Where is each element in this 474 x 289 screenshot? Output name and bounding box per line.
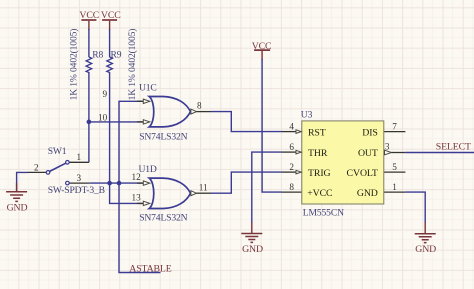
- svg-text:7: 7: [392, 121, 397, 131]
- svg-text:4: 4: [289, 121, 294, 131]
- or-gate U1C: [98, 82, 211, 142]
- resistor R8: [86, 50, 103, 73]
- svg-text:CVOLT: CVOLT: [347, 168, 378, 179]
- svg-text:8: 8: [197, 100, 202, 110]
- ground GND (right): [415, 222, 436, 255]
- svg-text:U3: U3: [301, 109, 313, 120]
- body: [302, 121, 384, 204]
- svg-text:1K 1% 0402(1005): 1K 1% 0402(1005): [127, 29, 138, 101]
- svg-text:SW-SPDT-3_B: SW-SPDT-3_B: [48, 185, 105, 196]
- wire SW1 pin3 to U1D pin12: [89, 182, 142, 184]
- lever: [50, 163, 66, 171]
- svg-text:U1C: U1C: [139, 82, 157, 93]
- switch SW1: [28, 146, 105, 196]
- svg-text:SN74LS32N: SN74LS32N: [139, 132, 187, 143]
- svg-text:SN74LS32N: SN74LS32N: [139, 212, 187, 223]
- svg-text:6: 6: [289, 142, 294, 152]
- junction at R8 column / U1C pin10 wire: [87, 120, 92, 125]
- svg-text:ASTABLE: ASTABLE: [129, 263, 171, 274]
- ground GND (center): [241, 222, 263, 255]
- svg-text:10: 10: [98, 113, 108, 123]
- wire VCC bar to R9: [109, 29, 111, 57]
- svg-text:3: 3: [77, 173, 82, 183]
- svg-text:1: 1: [392, 182, 397, 192]
- svg-text:GND: GND: [242, 244, 263, 255]
- svg-text:GND: GND: [357, 188, 378, 199]
- svg-text:5: 5: [392, 162, 397, 172]
- junction at ASTABLE column / SW pin3 wire: [117, 181, 122, 186]
- junction at R9 column / SW pin3 wire: [107, 181, 112, 186]
- resistor R9: [107, 50, 122, 73]
- svg-text:13: 13: [132, 192, 142, 202]
- wire U1C pin10 from R8 junction: [89, 121, 143, 123]
- svg-text:1K 1% 0402(1005): 1K 1% 0402(1005): [68, 29, 79, 101]
- svg-text:LM555CN: LM555CN: [303, 208, 344, 219]
- svg-text:TRIG: TRIG: [308, 168, 330, 179]
- svg-text:11: 11: [199, 182, 208, 192]
- wire VCC center to U3 +VCC: [262, 59, 281, 192]
- svg-text:R8: R8: [92, 50, 103, 61]
- wire U3 OUT to SELECT: [405, 152, 474, 154]
- svg-text:2: 2: [34, 162, 39, 172]
- wire U1C pin9 corner down to ASTABLE: [119, 101, 161, 272]
- svg-text:12: 12: [132, 172, 142, 182]
- svg-text:SELECT: SELECT: [436, 142, 471, 153]
- svg-text:DIS: DIS: [362, 127, 378, 138]
- ground GND (left): [6, 183, 27, 213]
- wire U1D pin11 to U3 TRIG: [211, 172, 282, 193]
- svg-text:GND: GND: [7, 202, 28, 213]
- gate body: [149, 97, 190, 127]
- svg-text:THR: THR: [308, 148, 328, 159]
- svg-text:U1D: U1D: [139, 164, 157, 175]
- svg-text:OUT: OUT: [358, 148, 378, 159]
- wire U3 GND pin to GND right: [405, 192, 425, 223]
- wire U3 THR to GND center: [252, 152, 282, 223]
- wire R9 down to U1D pin13 corner: [110, 72, 143, 203]
- wire SW1 pin2 to GND: [17, 172, 28, 191]
- svg-text:9: 9: [103, 89, 108, 99]
- svg-text:RST: RST: [308, 127, 326, 138]
- power port VCC (left, over R8): [79, 10, 99, 30]
- svg-text:R9: R9: [111, 50, 122, 61]
- power port VCC (left, over R9): [101, 10, 121, 30]
- svg-text:SW1: SW1: [48, 146, 67, 157]
- wire R8 to SW1 pin 1: [88, 72, 90, 162]
- power port VCC (center, over U3): [252, 41, 272, 60]
- or-gate U1D: [132, 164, 212, 223]
- svg-text:+VCC: +VCC: [307, 188, 332, 199]
- IC U3 LM555CN: [282, 109, 406, 218]
- gate body: [149, 178, 190, 208]
- wire U1C pin8 to U3 RST: [211, 112, 282, 132]
- svg-text:3: 3: [385, 141, 390, 151]
- svg-text:GND: GND: [415, 244, 436, 255]
- svg-text:2: 2: [289, 162, 294, 172]
- svg-text:8: 8: [289, 182, 294, 192]
- svg-text:1: 1: [77, 152, 82, 162]
- wire VCC bar to R8: [88, 29, 90, 57]
